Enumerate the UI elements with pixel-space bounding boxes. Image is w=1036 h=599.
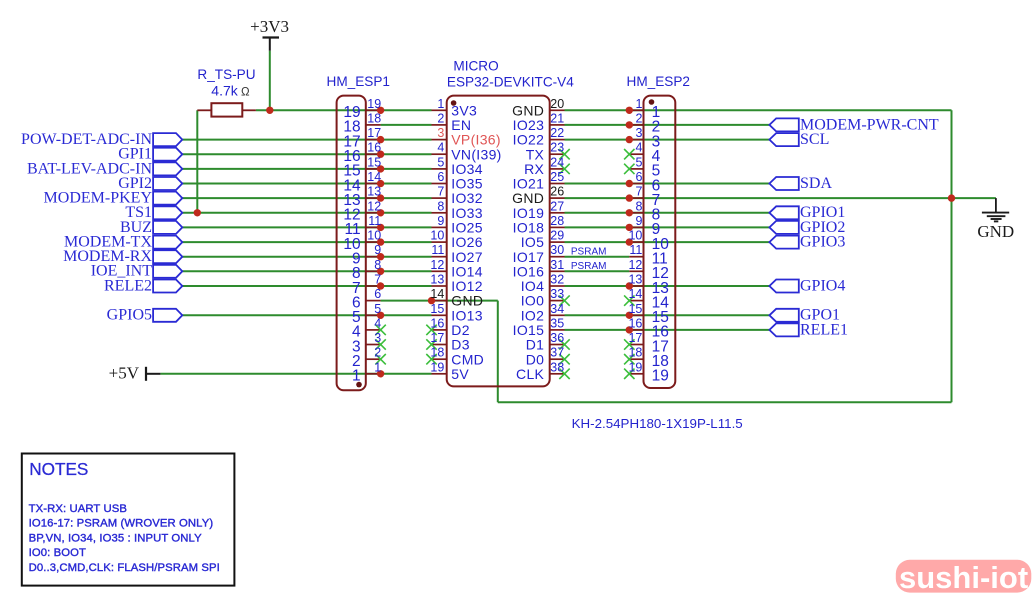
svg-text:27: 27 (550, 199, 564, 213)
svg-text:16: 16 (628, 316, 642, 330)
svg-text:19: 19 (430, 360, 444, 374)
svg-text:SDA: SDA (800, 175, 832, 192)
svg-text:sushi-iot: sushi-iot (899, 560, 1028, 594)
svg-text:7: 7 (374, 273, 381, 287)
svg-text:18: 18 (430, 346, 444, 360)
svg-text:HM_ESP2: HM_ESP2 (627, 74, 690, 89)
svg-text:11: 11 (629, 243, 642, 257)
svg-text:13: 13 (430, 273, 444, 287)
svg-text:IO23: IO23 (513, 117, 545, 133)
svg-text:11: 11 (431, 243, 444, 257)
svg-text:10: 10 (430, 229, 444, 243)
svg-text:5: 5 (437, 155, 444, 169)
svg-text:D1: D1 (526, 337, 545, 353)
svg-text:D3: D3 (451, 337, 470, 353)
svg-text:KH-2.54PH180-1X19P-L11.5: KH-2.54PH180-1X19P-L11.5 (572, 416, 743, 431)
svg-text:IO5: IO5 (521, 234, 544, 250)
svg-text:7: 7 (437, 185, 444, 199)
svg-text:RX: RX (524, 161, 544, 177)
svg-text:17: 17 (430, 331, 444, 345)
svg-text:1: 1 (374, 360, 381, 374)
svg-text:16: 16 (367, 141, 381, 155)
svg-text:19: 19 (367, 97, 381, 111)
svg-text:R_TS-PU: R_TS-PU (197, 67, 255, 82)
svg-text:9: 9 (635, 214, 642, 228)
svg-text:5V: 5V (451, 366, 469, 382)
svg-text:IO2: IO2 (521, 307, 544, 323)
svg-text:IO34: IO34 (451, 161, 483, 177)
svg-text:10: 10 (628, 229, 642, 243)
svg-text:3: 3 (374, 331, 381, 345)
svg-text:12: 12 (628, 258, 642, 272)
svg-text:IO18: IO18 (513, 220, 545, 236)
svg-text:1: 1 (437, 97, 444, 111)
svg-text:22: 22 (550, 126, 564, 140)
svg-text:6: 6 (437, 170, 444, 184)
svg-text:15: 15 (430, 302, 444, 316)
svg-text:RELE2: RELE2 (104, 277, 152, 294)
svg-text:TX: TX (526, 146, 545, 162)
svg-text:4: 4 (635, 141, 642, 155)
svg-text:4: 4 (374, 316, 381, 330)
svg-text:IO0: IO0 (521, 293, 544, 309)
svg-text:23: 23 (550, 141, 564, 155)
svg-text:MICRO: MICRO (453, 58, 498, 73)
svg-text:GND: GND (512, 190, 544, 206)
svg-text:IO27: IO27 (451, 249, 483, 265)
svg-text:13: 13 (367, 185, 381, 199)
svg-text:5: 5 (635, 155, 642, 169)
svg-text:18: 18 (628, 346, 642, 360)
svg-text:3: 3 (437, 126, 444, 140)
svg-text:20: 20 (550, 97, 564, 111)
svg-text:16: 16 (430, 316, 444, 330)
svg-text:SCL: SCL (800, 131, 829, 148)
svg-text:31: 31 (550, 258, 564, 272)
svg-text:GND: GND (451, 293, 483, 309)
svg-text:GND: GND (977, 222, 1014, 241)
svg-text:CMD: CMD (451, 351, 484, 367)
svg-text:8: 8 (635, 199, 642, 213)
svg-text:11: 11 (368, 214, 381, 228)
svg-text:IO25: IO25 (451, 220, 483, 236)
svg-text:ESP32-DEVKITC-V4: ESP32-DEVKITC-V4 (447, 74, 574, 89)
svg-text:IO26: IO26 (451, 234, 483, 250)
svg-text:17: 17 (628, 331, 642, 345)
svg-text:6: 6 (374, 287, 381, 301)
svg-text:IO35: IO35 (451, 176, 483, 192)
svg-text:26: 26 (550, 185, 564, 199)
svg-text:17: 17 (367, 126, 381, 140)
svg-text:RELE1: RELE1 (800, 321, 848, 338)
svg-text:GND: GND (512, 102, 544, 118)
svg-text:28: 28 (550, 214, 564, 228)
svg-text:30: 30 (550, 243, 564, 257)
svg-text:25: 25 (550, 170, 564, 184)
svg-text:TX-RX: UART USB: TX-RX: UART USB (29, 503, 127, 515)
svg-text:6: 6 (635, 170, 642, 184)
svg-text:13: 13 (628, 273, 642, 287)
svg-text:1: 1 (635, 97, 642, 111)
svg-text:CLK: CLK (516, 366, 544, 382)
svg-text:IO33: IO33 (451, 205, 483, 221)
svg-text:1: 1 (352, 368, 361, 385)
svg-text:14: 14 (367, 170, 381, 184)
svg-text:37: 37 (550, 346, 564, 360)
svg-text:35: 35 (550, 316, 564, 330)
svg-text:9: 9 (437, 214, 444, 228)
svg-text:IO16-17: PSRAM (WROVER ONLY): IO16-17: PSRAM (WROVER ONLY) (29, 518, 214, 530)
svg-text:7: 7 (635, 185, 642, 199)
svg-text:IO32: IO32 (451, 190, 483, 206)
svg-text:24: 24 (550, 155, 564, 169)
svg-text:2: 2 (635, 111, 642, 125)
svg-text:PSRAM: PSRAM (571, 261, 607, 272)
svg-text:IO14: IO14 (451, 263, 483, 279)
svg-text:D0..3,CMD,CLK: FLASH/PSRAM SPI: D0..3,CMD,CLK: FLASH/PSRAM SPI (29, 562, 220, 574)
svg-text:VP(I36): VP(I36) (451, 132, 501, 148)
svg-text:21: 21 (550, 111, 564, 125)
svg-text:3V3: 3V3 (451, 102, 477, 118)
svg-text:NOTES: NOTES (29, 459, 88, 479)
svg-text:19: 19 (628, 360, 642, 374)
svg-text:10: 10 (367, 229, 381, 243)
svg-text:29: 29 (550, 229, 564, 243)
svg-text:4: 4 (437, 141, 444, 155)
svg-text:15: 15 (628, 302, 642, 316)
svg-text:9: 9 (374, 243, 381, 257)
svg-text:36: 36 (550, 331, 564, 345)
svg-text:BP,VN, IO34, IO35 : INPUT ONLY: BP,VN, IO34, IO35 : INPUT ONLY (29, 532, 203, 544)
svg-text:D2: D2 (451, 322, 470, 338)
svg-text:IO15: IO15 (513, 322, 545, 338)
svg-text:12: 12 (367, 199, 381, 213)
svg-text:IO12: IO12 (451, 278, 483, 294)
svg-text:3: 3 (635, 126, 642, 140)
svg-text:19: 19 (652, 368, 669, 385)
svg-text:IO17: IO17 (513, 249, 545, 265)
svg-text:15: 15 (367, 155, 381, 169)
svg-text:2: 2 (437, 111, 444, 125)
svg-text:12: 12 (430, 258, 444, 272)
svg-text:+3V3: +3V3 (250, 17, 289, 36)
svg-text:IO16: IO16 (513, 263, 545, 279)
svg-text:IO22: IO22 (513, 132, 545, 148)
svg-text:GPIO3: GPIO3 (800, 234, 845, 251)
svg-text:VN(I39): VN(I39) (451, 146, 501, 162)
svg-text:14: 14 (430, 287, 444, 301)
svg-text:32: 32 (550, 273, 564, 287)
svg-text:IO19: IO19 (513, 205, 545, 221)
svg-text:IO4: IO4 (521, 278, 544, 294)
svg-text:GPIO5: GPIO5 (107, 307, 152, 324)
svg-text:GPIO4: GPIO4 (800, 277, 845, 294)
svg-text:IO13: IO13 (451, 307, 483, 323)
svg-text:34: 34 (550, 302, 564, 316)
svg-text:2: 2 (374, 346, 381, 360)
svg-text:Ω: Ω (241, 86, 250, 98)
svg-text:IO0: BOOT: IO0: BOOT (29, 547, 86, 559)
svg-text:5: 5 (374, 302, 381, 316)
svg-text:EN: EN (451, 117, 471, 133)
svg-text:33: 33 (550, 287, 564, 301)
svg-text:38: 38 (550, 360, 564, 374)
svg-text:18: 18 (367, 111, 381, 125)
svg-text:4.7k: 4.7k (211, 82, 238, 98)
svg-text:14: 14 (628, 287, 642, 301)
svg-text:8: 8 (374, 258, 381, 272)
svg-text:D0: D0 (526, 351, 545, 367)
svg-text:8: 8 (437, 199, 444, 213)
svg-text:IO21: IO21 (513, 176, 545, 192)
svg-text:+5V: +5V (109, 364, 140, 383)
svg-text:HM_ESP1: HM_ESP1 (327, 74, 390, 89)
svg-text:PSRAM: PSRAM (571, 246, 607, 257)
